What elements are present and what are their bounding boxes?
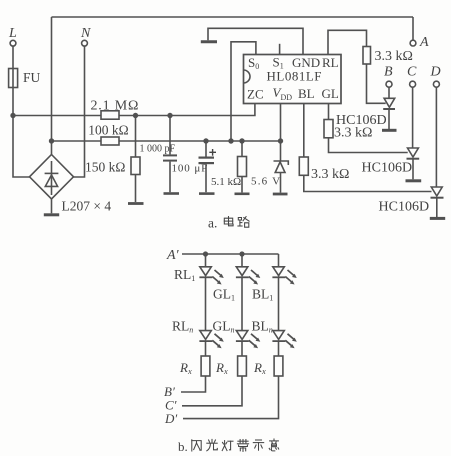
ground bar 100uF	[199, 192, 215, 195]
ground bar Q2	[406, 179, 422, 182]
wire gate B	[367, 64, 386, 103]
wire GL pin down	[328, 104, 330, 120]
ground bar Q3	[430, 217, 445, 220]
node junction S0wire-rail2	[228, 138, 233, 143]
wire rail2 right segment	[119, 140, 281, 142]
caption b char guang	[207, 439, 218, 450]
labels section a	[8, 26, 441, 215]
svg-text:D: D	[430, 65, 441, 80]
wire GND pin to touch plate	[208, 28, 303, 54]
caption a char lu	[238, 217, 249, 228]
node junction VDD-rail2	[278, 138, 283, 143]
svg-text:150 kΩ: 150 kΩ	[85, 159, 125, 174]
svg-text:Rx: Rx	[179, 360, 192, 376]
node junction col1	[203, 251, 208, 256]
capacitor 100uF	[205, 141, 207, 157]
LED arrows	[212, 270, 296, 348]
wire L down through fuse	[12, 46, 14, 115]
wire C'	[182, 376, 242, 406]
resistor 3.3k RL	[363, 47, 371, 65]
fuse FU	[9, 69, 18, 88]
svg-text:BL1: BL1	[252, 287, 273, 303]
resistor 5.1k	[241, 141, 243, 157]
section b	[181, 251, 285, 418]
resistor 150k hanging	[135, 116, 137, 158]
svg-text:HC106D: HC106D	[336, 113, 387, 128]
svg-text:L: L	[8, 26, 17, 41]
caption b char shan	[192, 440, 201, 451]
ground bar Q1	[382, 129, 397, 132]
svg-text:RL1: RL1	[174, 267, 195, 283]
LED BLn	[278, 277, 280, 330]
touch plate bar	[201, 40, 217, 43]
node junction rail2-left	[49, 138, 54, 143]
LED GLn	[241, 277, 243, 330]
resistor Rx3	[278, 341, 280, 356]
caption a char dian	[224, 217, 233, 226]
wire gate D	[304, 175, 432, 191]
bridge rectifier L207x4	[30, 155, 74, 200]
svg-text:HC106D: HC106D	[379, 200, 430, 215]
ground bar bridge	[44, 213, 59, 216]
resistor 100k	[101, 137, 119, 145]
arrows LED BLn	[285, 334, 297, 349]
wire S0 pin to rail2	[231, 42, 256, 141]
terminal L	[10, 40, 16, 46]
svg-text:100 kΩ: 100 kΩ	[88, 123, 128, 138]
caption b char yi	[269, 439, 279, 451]
wire D'	[183, 376, 279, 419]
caption a dianlu	[208, 216, 217, 231]
wire C down	[412, 87, 414, 148]
LED BL1	[278, 254, 280, 267]
node junction col2	[239, 251, 244, 256]
svg-text:5.6 V: 5.6 V	[251, 176, 281, 188]
caption b char shi	[253, 440, 263, 450]
resistor 3.3k BL	[299, 157, 308, 175]
ground bar zener	[273, 193, 288, 196]
wire VDD pin down	[280, 104, 282, 142]
svg-text:HL081LF: HL081LF	[267, 69, 323, 84]
svg-text:3.3 kΩ: 3.3 kΩ	[311, 167, 349, 182]
terminal N	[82, 40, 88, 46]
LED GL1	[241, 254, 243, 267]
resistor Rx1	[205, 341, 207, 356]
svg-text:GL: GL	[322, 86, 339, 101]
wire D down	[435, 87, 437, 187]
thyristor Q3 HC106D	[431, 187, 442, 196]
svg-text:100 μF: 100 μF	[172, 163, 209, 175]
svg-text:a.: a.	[208, 216, 217, 231]
node junction 5.1k-rail2	[239, 138, 244, 143]
wire L lower to bridge left vertex	[13, 116, 30, 178]
node junction L-rail1	[10, 113, 15, 118]
LED RLn	[205, 277, 207, 330]
resistor 2.1M	[101, 111, 119, 119]
wire RL pin to resistor	[328, 30, 367, 54]
svg-text:HC106D: HC106D	[362, 161, 413, 176]
wire A' rail	[182, 253, 279, 255]
arrows LED RL1	[212, 270, 224, 285]
capacitor 1000pF	[169, 116, 171, 155]
svg-text:RL: RL	[322, 55, 339, 70]
svg-text:A: A	[419, 35, 429, 50]
LED RL1	[205, 254, 207, 267]
ground bar 150k	[128, 202, 144, 205]
node junction 100uF-rail2	[203, 138, 208, 143]
wire BL pin down	[303, 104, 305, 158]
thyristor Q2 HC106D	[408, 148, 419, 157]
ground bar 1000pF	[164, 192, 180, 195]
svg-text:b.: b.	[178, 439, 188, 454]
wire rail1 left segment	[13, 115, 101, 117]
svg-text:FU: FU	[23, 70, 41, 85]
wire rail1 right segment to ZC pin	[119, 104, 255, 116]
svg-text:Rx: Rx	[215, 360, 228, 376]
svg-text:L207 × 4: L207 × 4	[62, 199, 112, 214]
arrows LED GLn	[249, 334, 260, 349]
arrows LED RLn	[212, 334, 224, 349]
caption b char deng	[222, 441, 233, 451]
svg-text:5.1 kΩ: 5.1 kΩ	[211, 176, 241, 188]
wire B down	[388, 87, 390, 98]
node junction 1000pF-rail1	[167, 113, 172, 118]
ground bar 5.1k	[235, 193, 250, 196]
svg-text:A′: A′	[166, 248, 180, 263]
thyristor Q1 HC106D	[384, 98, 395, 107]
svg-text:GLn: GLn	[213, 319, 235, 335]
caption b char dai	[237, 440, 248, 452]
svg-text:BL: BL	[298, 86, 315, 101]
svg-text:N: N	[80, 26, 91, 41]
wire top rail	[52, 16, 414, 18]
svg-text:VDD: VDD	[273, 85, 293, 102]
arrows LED GL1	[249, 270, 260, 285]
IC U1 HL081LF box	[244, 55, 342, 104]
svg-text:B: B	[384, 65, 393, 80]
svg-text:Rx: Rx	[253, 360, 266, 376]
svg-text:BLn: BLn	[252, 319, 273, 335]
wire rail2 left segment	[52, 140, 102, 142]
svg-text:D′: D′	[164, 411, 177, 426]
arrows LED BL1	[285, 270, 297, 285]
caption b	[178, 439, 188, 454]
terminal B	[386, 81, 392, 87]
svg-text:3.3 kΩ: 3.3 kΩ	[375, 49, 413, 64]
resistor 3.3k GL	[324, 120, 333, 138]
CJK captions drawn as strokes	[192, 217, 279, 452]
svg-text:1 000 pF: 1 000 pF	[140, 144, 176, 155]
wire N down to bridge right vertex	[74, 46, 85, 177]
resistor Rx2	[241, 341, 243, 356]
wire bridge bottom	[51, 199, 53, 213]
wire gate C	[329, 138, 408, 153]
node junction 150k-rail1	[133, 113, 138, 118]
svg-text:GL1: GL1	[213, 287, 235, 303]
svg-text:RLn: RLn	[172, 319, 193, 335]
terminal D	[433, 81, 439, 87]
svg-text:C: C	[407, 65, 417, 80]
wire B'	[181, 376, 206, 392]
svg-text:2.1 MΩ: 2.1 MΩ	[91, 99, 140, 114]
labels section b	[164, 248, 273, 426]
svg-text:ZC: ZC	[247, 87, 264, 102]
IC pin labels	[247, 55, 339, 103]
wire left vertical from top rail to bridge top	[51, 17, 53, 155]
zener 5.6V	[280, 141, 282, 161]
svg-text:S0: S0	[248, 55, 259, 71]
terminal A	[412, 17, 414, 40]
wire S1 stub	[279, 44, 281, 55]
terminal C	[410, 81, 416, 87]
